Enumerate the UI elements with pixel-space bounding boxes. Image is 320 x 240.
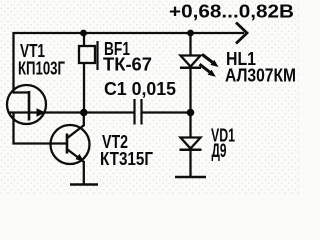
wire rail to LED	[189, 33, 191, 56]
LED HL1 light arrow 2	[200, 64, 211, 72]
LED HL1 cathode bar	[180, 66, 201, 69]
svg-text:+0,68...0,82В: +0,68...0,82В	[169, 2, 294, 22]
capacitor C1 right plate	[140, 99, 142, 125]
wire BF1 bottom	[83, 63, 85, 113]
LED HL1 light arrow 1	[202, 54, 213, 62]
node dot rail/LED	[187, 30, 194, 37]
wire left vertical (VT1 drain to rail)	[12, 32, 14, 93]
wire node C1 to capacitor	[84, 111, 134, 113]
wire capacitor to node D	[143, 111, 192, 113]
wire top supply rail	[13, 32, 244, 34]
diode VD1 cathode bar	[180, 149, 202, 152]
earphone BF1 membrane bar	[96, 41, 98, 70]
wire BF1 top	[83, 33, 85, 46]
transistor VT2 emitter	[68, 150, 84, 186]
svg-text:АЛ307КМ: АЛ307КМ	[225, 66, 296, 86]
transistor VT2 body	[51, 125, 90, 164]
diode VD1 triangle	[181, 138, 201, 149]
svg-text:С1 0,015: С1 0,015	[104, 79, 176, 99]
transistor VT2 base bar	[66, 134, 69, 154]
wire node D to VD1	[189, 113, 191, 139]
wire VT1 source down	[12, 113, 14, 145]
transistor VT2 collector	[68, 113, 84, 138]
svg-text:КТ315Г: КТ315Г	[100, 149, 153, 169]
transistor VT2 emitter arrow	[76, 154, 85, 162]
svg-text:ТК-67: ТК-67	[103, 55, 152, 75]
svg-text:КП103Г: КП103Г	[18, 59, 65, 79]
transistor VT1 drain lead	[13, 91, 30, 93]
node dot rail/BF1	[80, 30, 87, 37]
transistor VT1 body	[7, 85, 46, 124]
transistor VT1 channel	[28, 91, 31, 121]
svg-text:Д9: Д9	[212, 141, 227, 162]
wire VD1 down	[189, 150, 191, 178]
LED HL1 triangle	[181, 56, 201, 67]
supply arrow	[236, 23, 247, 44]
terminal bar VT2 emitter	[70, 183, 98, 186]
wire LED to node D	[189, 68, 191, 113]
capacitor C1 left plate	[133, 99, 135, 125]
node dot gate/BF1/C1/collector	[80, 109, 88, 117]
node dot C1/LED/VD1	[187, 109, 195, 117]
earphone BF1 box	[79, 46, 95, 63]
transistor VT1 gate wire to node C1	[8, 111, 82, 113]
transistor VT1 gate arrow (p-channel)	[37, 108, 46, 117]
terminal bar VD1 bottom	[175, 176, 206, 179]
wire bottom horizontal to VT2 base	[13, 142, 68, 144]
